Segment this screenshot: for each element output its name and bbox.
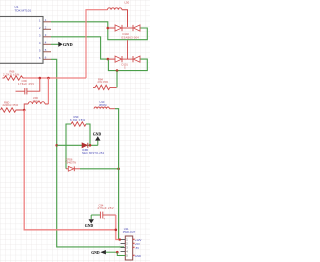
junction dot pin6/IC6B	[55, 144, 58, 147]
diode CR56	[65, 158, 80, 172]
wire CR56 cathode to riser	[80, 168, 119, 170]
svg-text:+: +	[103, 216, 105, 220]
svg-text:L50: L50	[125, 0, 130, 4]
wire gnd jog to pin5	[117, 252, 125, 255]
wire branch to R84	[116, 71, 118, 88]
inductor L50	[108, 0, 130, 27]
junction dot gnd row	[116, 251, 119, 254]
junction dot pin3/D101	[107, 58, 110, 61]
wire IC6B row	[57, 144, 82, 146]
wire R99 right branch	[86, 124, 90, 145]
svg-text:220KΩ ±5%: 220KΩ ±5%	[3, 103, 19, 107]
resistor R6D	[1, 100, 25, 112]
pin 5	[39, 48, 51, 52]
diode D101 dual common-cathode	[108, 40, 140, 69]
junction dot R66 net	[47, 77, 50, 80]
wire R66 to riser	[24, 77, 86, 79]
ground flag bottom-right left	[91, 250, 117, 255]
connector pin stubs	[121, 240, 126, 256]
wire top red riser	[86, 10, 108, 78]
ground flag bottom-left down	[85, 215, 94, 228]
diode IC6B	[82, 143, 105, 155]
resistor R84	[93, 77, 117, 89]
svg-text:-5V: -5V	[135, 246, 139, 250]
svg-text:GND: GND	[91, 251, 100, 255]
connector U11	[123, 227, 136, 260]
svg-text:TDK MT101: TDK MT101	[15, 9, 32, 13]
junction dot loop branch	[116, 69, 119, 72]
ground flag mid up	[93, 132, 102, 145]
inductor L5D	[24, 96, 48, 110]
svg-text:PWR-OUT: PWR-OUT	[123, 230, 136, 234]
wire pin6 long net	[51, 59, 124, 247]
junction dot pin1/D102	[107, 27, 110, 30]
junction dot R6D	[23, 109, 26, 112]
svg-text:27Ω ±5%: 27Ω ±5%	[98, 80, 109, 84]
diode D102 dual common-cathode	[115, 25, 140, 39]
svg-text:ESAB63-004: ESAB63-004	[122, 35, 140, 39]
wire left long drop	[24, 110, 116, 230]
junction dot CR56 net	[117, 168, 120, 171]
pin 3	[39, 33, 51, 37]
svg-text:176uF 25V: 176uF 25V	[18, 82, 34, 86]
wire IC6B cathode node	[88, 144, 98, 146]
junction dot bus	[115, 229, 118, 232]
svg-text:275uF 25V: 275uF 25V	[98, 206, 114, 210]
resistor R99	[70, 115, 86, 126]
wire pin4 to GND	[51, 43, 59, 45]
resistor R66	[3, 70, 25, 81]
inductor U10	[94, 100, 115, 109]
wire C94 to pin1	[116, 215, 121, 240]
junction dot cathode	[89, 144, 92, 147]
pin 1	[39, 18, 51, 22]
capacitor C6D	[16, 78, 40, 94]
svg-text:GND: GND	[63, 42, 73, 47]
wire U10 riser down	[115, 109, 121, 240]
no-connect marks	[133, 239, 134, 256]
svg-text:NEC 8P2TO-252: NEC 8P2TO-252	[82, 151, 105, 155]
pin 6	[39, 56, 51, 60]
ground flag pin4	[58, 42, 72, 47]
pin 2	[39, 26, 51, 30]
wire R99 left branch	[66, 124, 71, 169]
junction dot pin1	[119, 238, 121, 240]
svg-text:GND: GND	[135, 254, 141, 258]
wire pin1 net	[51, 22, 147, 40]
svg-text:GND: GND	[93, 132, 102, 136]
wire D101 loop	[108, 59, 147, 71]
op-amp U1 box	[0, 5, 43, 63]
wire drop to L5D	[47, 78, 49, 104]
wire pin3 net	[51, 37, 108, 59]
pin 4	[39, 41, 51, 45]
svg-text:3POM: 3POM	[99, 103, 106, 107]
connector pin numbers	[126, 238, 128, 258]
capacitor C94	[91, 203, 116, 220]
svg-text:Y5463TN: Y5463TN	[65, 160, 76, 164]
svg-text:GND: GND	[85, 224, 94, 228]
wire D102 anode	[108, 27, 115, 29]
junction dot C6D	[39, 77, 42, 80]
